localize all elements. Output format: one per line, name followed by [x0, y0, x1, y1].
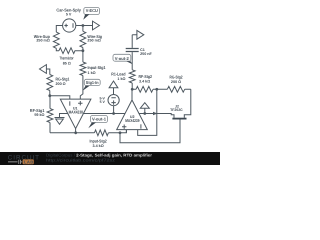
- svg-text:250 nF: 250 nF: [140, 52, 152, 56]
- svg-text:RF-Stg2: RF-Stg2: [139, 74, 153, 79]
- svg-text:RG-Stg2: RG-Stg2: [170, 75, 184, 80]
- resistor Wire-Sig 250 mOhm: [80, 26, 102, 51]
- node junction thermistor/Wire-Sig: [82, 49, 85, 52]
- resistor R1-Load 1 kOhm: [111, 64, 135, 90]
- svg-text:250 mΩ: 250 mΩ: [87, 38, 100, 42]
- wire U1 V- pin to ground: [60, 114, 68, 118]
- wire Wire-Sup bottom to thermistor corner: [56, 48, 59, 50]
- svg-text:200 Ω: 200 Ω: [171, 80, 181, 84]
- svg-text:TF202C: TF202C: [170, 108, 183, 112]
- supply arrow above 5-V source: [109, 81, 118, 95]
- svg-text:Input-Stg2: Input-Stg2: [90, 139, 108, 144]
- svg-text:MAX4239: MAX4239: [125, 118, 140, 123]
- node junction U1 minus: [48, 94, 51, 97]
- voltage source V1 Car-Sen-Sply: [56, 7, 81, 32]
- svg-text:V-out-2: V-out-2: [115, 56, 130, 61]
- thermistor 85 Ohm: [59, 48, 83, 66]
- svg-text:3.4 kΩ: 3.4 kΩ: [139, 80, 150, 84]
- wire U2 output up to feedback row: [131, 89, 133, 100]
- op-amp U2 MAX4239 (pointing up): [117, 100, 148, 130]
- connector J2 TF202C: [170, 104, 186, 143]
- wire junction to U1 minus pin: [50, 96, 70, 99]
- wire U1 output to rail: [75, 129, 77, 133]
- supply arrow at U2: [140, 103, 149, 114]
- svg-text:85 Ω: 85 Ω: [63, 61, 71, 65]
- node junction rail branch: [119, 131, 122, 134]
- flag V-out-1: [88, 116, 107, 129]
- flag Stg1-In: [83, 79, 101, 91]
- capacitor C1 250 nF: [126, 35, 153, 64]
- svg-text:MAX4238: MAX4238: [69, 110, 84, 115]
- wire Input-Stg1 to U1 plus input: [80, 76, 83, 100]
- svg-text:V-out-1: V-out-1: [92, 116, 107, 121]
- port arrow above C1 (right-pointing): [132, 30, 144, 39]
- wire U1 V+ pin to 5-V node: [84, 113, 126, 115]
- svg-text:1 kΩ: 1 kΩ: [88, 71, 96, 75]
- resistor RF-Stg1 59 kOhm: [30, 96, 53, 133]
- resistor Input-Stg2 3.4 kOhm: [90, 130, 109, 148]
- flag V-ECU: [83, 8, 99, 20]
- svg-text:3.4 kΩ: 3.4 kΩ: [93, 144, 104, 148]
- wire rail branch to J2 bottom: [120, 123, 180, 143]
- svg-text:250 mΩ: 250 mΩ: [36, 38, 49, 42]
- wire RG-Stg1 to junction: [49, 91, 51, 96]
- resistor Wire-Sup 250 mOhm: [34, 32, 59, 48]
- svg-text:LAB: LAB: [24, 159, 34, 164]
- svg-text:5 V: 5 V: [66, 13, 72, 17]
- wire port to RG-Stg1: [46, 69, 49, 75]
- flag V-out-2: [113, 54, 133, 64]
- svg-text:200 Ω: 200 Ω: [56, 82, 66, 86]
- port arrow V-ECU (right-pointing): [93, 21, 100, 30]
- svg-text:http://circuitlab.com/c/pf72sz: http://circuitlab.com/c/pf72sz: [46, 157, 115, 162]
- footer bar: [0, 152, 220, 165]
- svg-text:5 V: 5 V: [100, 100, 106, 104]
- resistor Input-Stg1 1 kOhm: [80, 51, 106, 76]
- wire V1 left lead to left column top: [56, 26, 62, 33]
- wire U2 V+ pin to supply arrow and J2: [139, 114, 174, 118]
- svg-text:1 kΩ: 1 kΩ: [117, 77, 125, 81]
- svg-text:R1-Load: R1-Load: [111, 71, 126, 76]
- resistor RF-Stg2 3.4 kOhm: [132, 74, 157, 92]
- wire bottom rail: [50, 130, 126, 133]
- wire U2 plus pin to rail: [125, 130, 127, 133]
- wire RG-Stg2 down to J2 right pin: [184, 89, 191, 117]
- svg-text:V-ECU: V-ECU: [86, 8, 98, 13]
- wire U2 minus pin loop to feedback node: [138, 89, 157, 135]
- svg-text:Thermistor: Thermistor: [60, 55, 74, 60]
- ground: [55, 118, 65, 125]
- resistor RG-Stg2 200 Ohm: [157, 75, 191, 93]
- node junction U1 out: [74, 131, 77, 134]
- svg-text:59 kΩ: 59 kΩ: [34, 113, 44, 117]
- resistor RG-Stg1 200 Ohm: [47, 75, 70, 91]
- svg-text:Input-Stg1: Input-Stg1: [88, 65, 107, 70]
- wire V1 right lead to junction: [76, 25, 93, 27]
- node junction 5-V bottom: [112, 112, 115, 115]
- voltage source 5-V: [99, 95, 119, 106]
- op-amp U1 MAX4238 (pointing down): [60, 99, 91, 129]
- wire 5-V source to supply rail node: [113, 106, 115, 114]
- port arrow left (Stg1 input port): [40, 65, 47, 74]
- current arrowhead at crossing: [153, 112, 158, 116]
- node junction RF/RG: [155, 88, 158, 91]
- node junction U2 out / R1-Load / RF-Stg2: [131, 88, 134, 91]
- svg-text:Stg1-In: Stg1-In: [86, 80, 99, 85]
- node junction top: [82, 24, 85, 27]
